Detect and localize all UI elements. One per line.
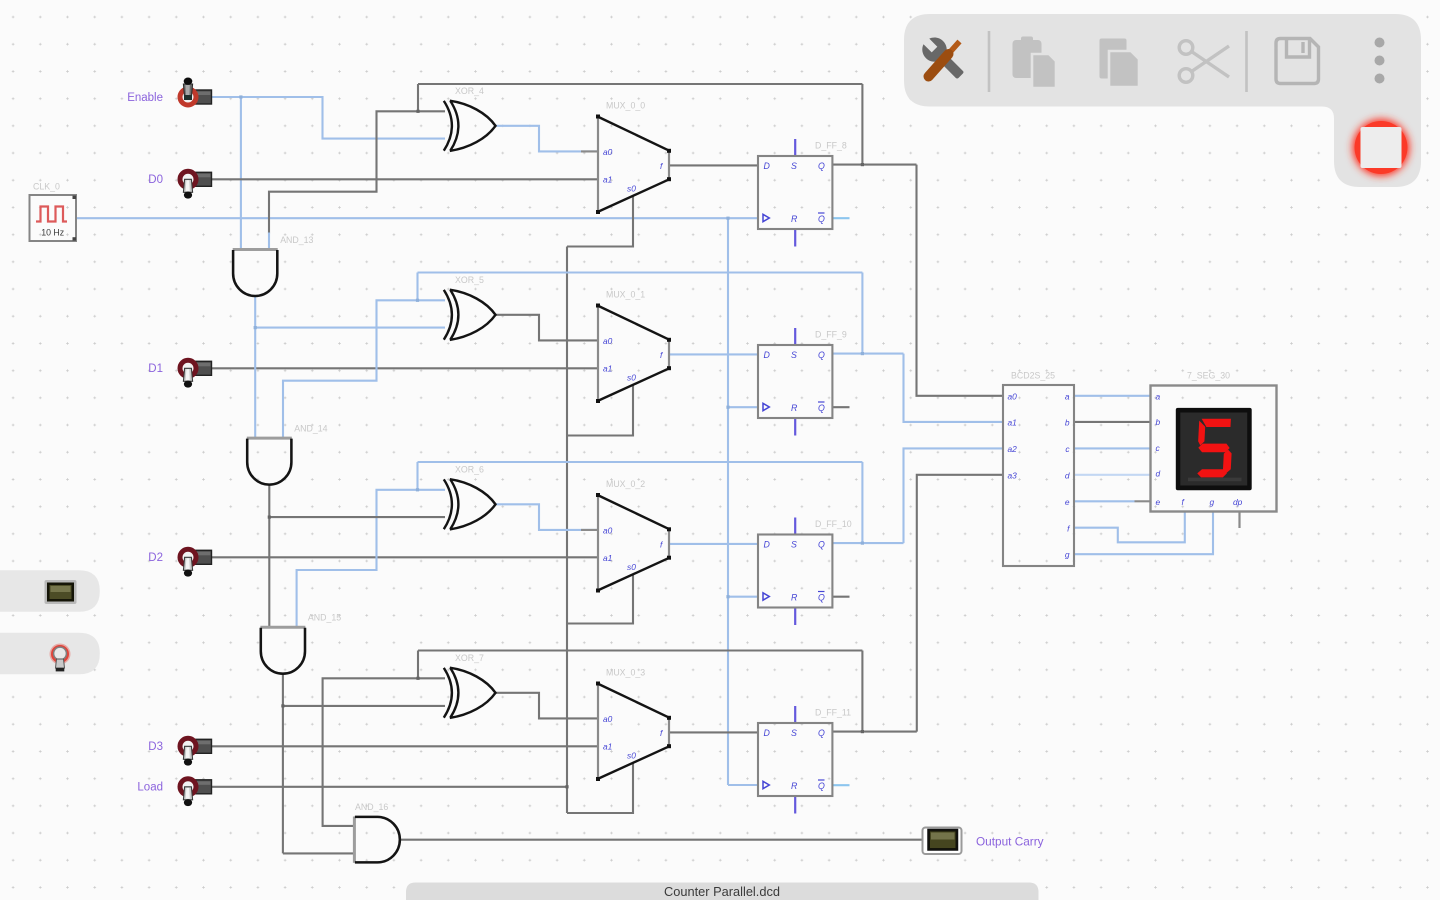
svg-text:a: a (1156, 391, 1161, 401)
svg-text:s0: s0 (627, 373, 636, 383)
svg-text:XOR_6: XOR_6 (455, 465, 484, 475)
multiplexer MUX_0_3 (596, 668, 671, 782)
svg-text:e: e (1065, 497, 1070, 507)
svg-text:s0: s0 (627, 562, 636, 572)
input switch Enable (on) (127, 78, 211, 106)
svg-text:D: D (764, 728, 771, 738)
svg-text:a0: a0 (603, 714, 613, 724)
svg-text:R: R (791, 214, 798, 224)
UI: top-right toolbar panel (904, 14, 1421, 187)
svg-text:Output Carry: Output Carry (976, 834, 1044, 848)
svg-text:Load: Load (137, 782, 163, 794)
wire: AND_13 output to XOR_5 lower input and AND_14 input 1 (254, 296, 256, 439)
XOR gate XOR_4 (444, 86, 496, 151)
AND gate AND_16 (rotated, output to the right) (354, 802, 399, 863)
wire: AND_16 output to Output Carry LED (400, 839, 922, 841)
UI: toolbar icon cut (scissors) (1179, 41, 1229, 83)
multiplexer MUX_0_1 (596, 290, 671, 404)
svg-text:D1: D1 (148, 363, 163, 375)
UI: toolbar menu (three dots) (1375, 38, 1385, 84)
UI: red stop (run) button (1353, 119, 1410, 176)
svg-text:a3: a3 (1008, 471, 1018, 481)
svg-text:Q: Q (818, 350, 825, 360)
svg-text:Q: Q (818, 540, 825, 550)
svg-text:g: g (1065, 550, 1070, 560)
svg-text:XOR_4: XOR_4 (455, 86, 484, 96)
input switch D3 (off) (148, 738, 211, 765)
wire: Enable net (high) from Enable switch to XOR_4 lower input and down to AND_13 input 1 (211, 97, 445, 139)
svg-text:a0: a0 (1008, 391, 1018, 401)
wire: AND_14 output to XOR_6 lower input and AND_15 input 1 (268, 484, 270, 627)
svg-text:Q: Q (818, 728, 825, 738)
svg-text:e: e (1156, 497, 1161, 507)
svg-text:MUX_0_3: MUX_0_3 (606, 668, 645, 678)
svg-text:D_FF_8: D_FF_8 (815, 141, 847, 151)
svg-text:a1: a1 (1008, 418, 1017, 428)
D flip-flop D_FF_9 (758, 328, 850, 436)
XOR gate XOR_5 (444, 275, 496, 340)
svg-text:D_FF_9: D_FF_9 (815, 330, 847, 340)
wire: clock net from CLK_0 to all flip-flop clock pins (76, 217, 758, 219)
XOR gate XOR_6 (444, 465, 496, 530)
UI: toolbar separator (988, 31, 991, 92)
wire: XOR_7 output to MUX_0_3 a0 input (496, 693, 599, 719)
UI: toolbar icon tools (wrench and screwdriver) (922, 38, 963, 79)
UI: toolbar icon copy (1100, 39, 1140, 88)
multiplexer MUX_0_0 (596, 101, 671, 215)
AND gate AND_15 (260, 613, 341, 674)
svg-text:MUX_0_0: MUX_0_0 (606, 101, 645, 111)
svg-text:a1: a1 (603, 742, 612, 752)
wire: XOR_6 output to MUX_0_2 a0 input (496, 504, 599, 530)
svg-text:R: R (791, 403, 798, 413)
svg-text:Q: Q (818, 214, 825, 224)
svg-text:AND_16: AND_16 (355, 802, 388, 812)
wire: MUX_0_1 f output to D_FF_9 D input (669, 353, 758, 355)
svg-text:S: S (791, 350, 797, 360)
svg-text:d: d (1065, 471, 1070, 481)
svg-text:s0: s0 (627, 184, 636, 194)
input switch D1 (off) (148, 360, 211, 387)
svg-text:Q: Q (818, 403, 825, 413)
wire: MUX_0_3 f output to D_FF_11 D input (669, 731, 758, 733)
svg-text:S: S (791, 540, 797, 550)
D flip-flop D_FF_8 (758, 139, 850, 247)
svg-text:a1: a1 (603, 364, 612, 374)
wire: Load/select net from Load switch to all MUX s0 pins (211, 786, 567, 788)
svg-text:g: g (1210, 497, 1215, 507)
svg-text:S: S (791, 161, 797, 171)
svg-text:AND_14: AND_14 (294, 424, 327, 434)
svg-text:BCD2S_25: BCD2S_25 (1011, 371, 1055, 381)
AND gate AND_14 (247, 424, 328, 485)
wire: D2 net to MUX_0_2 a1 (211, 556, 598, 558)
7-segment display 7_SEG_30 (1151, 371, 1277, 529)
svg-text:b: b (1065, 418, 1070, 428)
svg-text:d: d (1156, 469, 1161, 479)
svg-text:Q: Q (818, 593, 825, 603)
UI: toolbar separator 2 (1245, 31, 1248, 92)
svg-text:CLK_0: CLK_0 (33, 182, 60, 192)
svg-text:a: a (1065, 391, 1070, 401)
svg-text:a1: a1 (603, 175, 612, 185)
input switch D2 (off) (148, 549, 211, 576)
svg-text:D0: D0 (148, 174, 163, 186)
AND gate AND_13 (233, 235, 314, 296)
UI: bottom file-name bar Counter Parallel.dcd (406, 883, 1039, 900)
svg-text:D_FF_11: D_FF_11 (815, 708, 851, 718)
wire: Q0 net from D_FF_8 Q to BCD a0, feedback to XOR_4 and AND_13 input 2 (832, 164, 916, 166)
svg-text:R: R (791, 593, 798, 603)
UI: left dock button with display icon (0, 570, 100, 612)
wire: BCD2S_25 segment outputs to 7_SEG_30 inputs (1074, 395, 1151, 397)
svg-text:7_SEG_30: 7_SEG_30 (1187, 371, 1230, 381)
red digit 5 on the display (1196, 419, 1233, 478)
svg-text:a0: a0 (603, 336, 613, 346)
wire: Q3 net from D_FF_11 Q to BCD a3, feedback to XOR_7 and AND_16 input 1 (832, 731, 916, 733)
clock generator CLK_0 (30, 182, 77, 242)
input switch Load (off) (137, 779, 211, 806)
svg-text:a2: a2 (1008, 444, 1018, 454)
svg-text:Enable: Enable (127, 92, 163, 104)
wire: MUX_0_0 f output to D_FF_8 D input (669, 164, 758, 166)
wire: XOR_5 output to MUX_0_1 a0 input (496, 315, 599, 341)
svg-text:D: D (764, 540, 771, 550)
svg-text:D3: D3 (148, 741, 163, 753)
svg-text:Q: Q (818, 781, 825, 791)
wire: D3 net to MUX_0_3 a1 (211, 745, 598, 747)
svg-text:b: b (1156, 417, 1161, 427)
wire: AND_15 output to XOR_7 lower input and AND_16 input 2 (282, 673, 284, 853)
svg-text:XOR_7: XOR_7 (455, 653, 484, 663)
svg-text:D: D (764, 350, 771, 360)
wire: Q1 net from D_FF_9 Q to BCD a1, feedback to XOR_5 and AND_14 input 2 (832, 353, 903, 355)
UI: toolbar icon save (floppy disk) (1276, 39, 1319, 84)
svg-text:D: D (764, 161, 771, 171)
input switch D0 (off) (148, 171, 211, 198)
svg-text:10 Hz: 10 Hz (41, 228, 64, 238)
D flip-flop D_FF_11 (758, 706, 851, 814)
svg-text:s0: s0 (627, 751, 636, 761)
UI: left dock button with bulb icon (0, 633, 100, 675)
svg-text:D_FF_10: D_FF_10 (815, 519, 852, 529)
wire: D1 net to MUX_0_1 a1 (211, 367, 598, 369)
svg-text:MUX_0_1: MUX_0_1 (606, 290, 645, 300)
svg-text:AND_13: AND_13 (280, 235, 313, 245)
LED Output Carry (923, 828, 1044, 855)
svg-text:a0: a0 (603, 147, 613, 157)
svg-text:S: S (791, 728, 797, 738)
multiplexer MUX_0_2 (596, 479, 671, 593)
wire: Q2 net from D_FF_10 Q to BCD a2, feedback to XOR_6 and AND_15 input 2 (832, 542, 903, 544)
svg-text:a0: a0 (603, 526, 613, 536)
XOR gate XOR_7 (444, 653, 496, 718)
svg-text:R: R (791, 781, 798, 791)
wire: D0 net to MUX_0_0 a1 (211, 178, 598, 180)
svg-text:Q: Q (818, 161, 825, 171)
svg-text:dp: dp (1233, 497, 1243, 507)
svg-text:MUX_0_2: MUX_0_2 (606, 479, 645, 489)
wire: XOR_4 output to MUX_0_0 a0 input (496, 126, 599, 152)
svg-text:D2: D2 (148, 552, 163, 564)
svg-text:AND_15: AND_15 (308, 613, 341, 623)
wire: MUX_0_2 f output to D_FF_10 D input (669, 543, 758, 545)
svg-text:XOR_5: XOR_5 (455, 275, 484, 285)
svg-text:a1: a1 (603, 553, 612, 563)
UI: toolbar icon paste (1013, 37, 1057, 89)
svg-text:Counter Parallel.dcd: Counter Parallel.dcd (664, 884, 780, 899)
D flip-flop D_FF_10 (758, 518, 852, 626)
BCD to 7-segment decoder BCD2S_25 (1003, 371, 1074, 567)
